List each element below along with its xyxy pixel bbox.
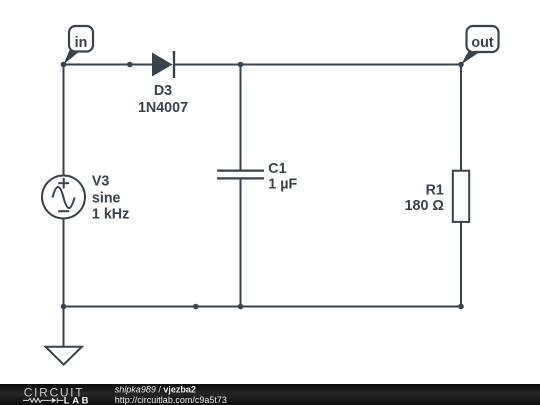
svg-text:shipka989 / vjezba2: shipka989 / vjezba2 [115, 384, 196, 394]
wire top-left: in node to diode anode [64, 64, 153, 66]
svg-text:in: in [75, 35, 88, 51]
svg-text:180 Ω: 180 Ω [405, 198, 444, 214]
svg-text:1N4007: 1N4007 [138, 100, 188, 116]
svg-text:V3: V3 [92, 173, 110, 189]
junction dot out node [458, 62, 464, 68]
wire right branch upper: out node to R1 top [460, 65, 462, 171]
junction dot in node [61, 62, 67, 68]
wire ground stub [63, 307, 65, 347]
junction dot top wire segment [127, 62, 133, 68]
ground [46, 347, 82, 365]
wire left branch upper: in node to V3 top [63, 65, 65, 177]
junction dot capacitor bottom [238, 304, 244, 310]
junction dot capacitor top [238, 62, 244, 68]
voltage source V3 [42, 176, 85, 219]
node in flag [64, 26, 94, 65]
svg-text:D3: D3 [154, 83, 172, 99]
wire capacitor branch upper [240, 65, 242, 170]
wire bottom rail [64, 306, 462, 308]
resistor R1 [453, 171, 469, 222]
diode D3 [152, 51, 174, 78]
footer bar [0, 384, 540, 405]
junction dot bottom right [458, 304, 464, 310]
svg-text:sine: sine [92, 191, 121, 207]
svg-text:C1: C1 [268, 161, 286, 177]
capacitor C1 [217, 171, 264, 179]
wire left branch lower: V3 bottom to bottom rail [63, 219, 65, 307]
wire top-right: diode cathode to out node [175, 64, 462, 66]
junction dot bottom left [61, 304, 67, 310]
svg-text:R1: R1 [426, 182, 444, 198]
svg-text:LAB: LAB [64, 395, 91, 405]
svg-text:http://circuitlab.com/c9a5t73: http://circuitlab.com/c9a5t73 [115, 395, 227, 405]
junction dot bottom rail segment [193, 304, 199, 310]
logo mini schematic [23, 398, 64, 403]
wire right branch lower: R1 bottom to bottom rail [460, 222, 462, 307]
node out flag [461, 26, 499, 65]
svg-text:out: out [471, 35, 493, 51]
wire capacitor branch lower [240, 179, 242, 306]
svg-text:1 µF: 1 µF [268, 176, 297, 192]
svg-text:1 kHz: 1 kHz [92, 207, 129, 223]
